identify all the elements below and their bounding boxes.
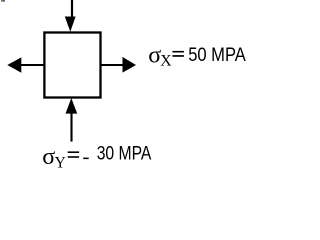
wire: top arrow shaft (sigma-y load)	[71, 0, 73, 18]
svg-text:Y: Y	[55, 155, 66, 172]
label sigma-y: value 30 MPA	[97, 144, 152, 165]
svg-text:σ: σ	[42, 144, 55, 170]
arrowhead: bottom arrow pointing up into bottom face	[66, 98, 78, 114]
label sigma-x: subscript X	[160, 52, 172, 69]
svg-text:X: X	[160, 52, 172, 69]
wire: bottom arrow shaft (sigma-y load)	[70, 113, 72, 142]
wire: left arrow shaft (sigma-x load)	[21, 64, 45, 66]
label sigma-y: sigma glyph	[42, 144, 55, 170]
arrowhead: right arrow pointing right outward	[123, 57, 137, 73]
wire: right arrow shaft (sigma-x load)	[100, 64, 124, 66]
svg-text:30 MPA: 30 MPA	[97, 144, 152, 165]
label sigma-y: equals sign bars	[68, 151, 79, 157]
label sigma-x: sigma glyph	[148, 42, 161, 68]
label sigma-y: minus sign	[83, 158, 89, 160]
arrowhead: top arrow pointing down into top face	[65, 17, 76, 32]
label sigma-y: subscript Y	[55, 155, 66, 172]
label sigma-x: equals sign bars	[172, 51, 184, 57]
stress element square	[44, 33, 100, 98]
label sigma-x: value 50 MPA	[188, 45, 246, 66]
arrowhead: left arrow pointing left outward	[7, 57, 21, 72]
svg-text:50 MPA: 50 MPA	[188, 45, 246, 66]
